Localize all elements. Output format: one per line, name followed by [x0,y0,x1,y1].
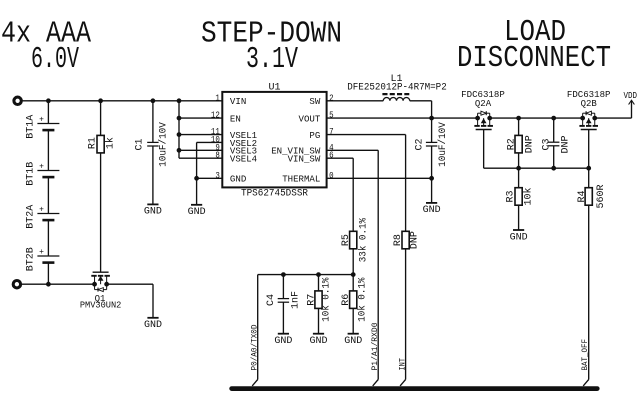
wire [47,177,49,214]
resistor R4 [585,188,592,206]
wire down P0/A0/TX0D [257,275,259,380]
svg-text:12: 12 [211,111,220,121]
junction VSEL2/GND [195,176,199,180]
wire R3 bottom [518,205,520,230]
svg-text:C1: C1 [135,138,146,150]
wire VSEL2 to GND [197,141,223,143]
svg-text:BT1A: BT1A [26,115,37,139]
ground (Q1 source) [147,317,158,319]
svg-text:+: + [39,116,44,125]
wire Q1 to GND [107,283,153,285]
svg-text:GND: GND [230,174,247,185]
junction Q2B gate/R4 [587,166,591,170]
resistor R2 [515,135,522,153]
wire PG down to R8 [405,135,407,232]
wire VOUT rail [327,117,478,119]
wire SW [327,100,384,102]
wire to ground [196,178,198,205]
wire to ground [431,178,433,203]
ground (R7) [313,333,324,335]
wire EN [179,117,222,119]
svg-text:C2: C2 [414,138,425,150]
ground (C2) [426,202,437,204]
op-amp U1 TPS62745DSSR box [222,92,326,187]
svg-text:10k 0.1%: 10k 0.1% [357,278,369,322]
wire R8 to bus [405,249,407,380]
wire VSEL1 [179,134,222,136]
wire C2 bottom [431,146,433,178]
svg-text:DNP: DNP [410,231,421,249]
wire [47,220,49,256]
svg-text:VDD: VDD [623,91,637,101]
VDD arrow [629,100,635,104]
svg-text:6: 6 [329,151,334,161]
bus entry BAT_OFF [583,380,589,386]
junction R2 top [517,116,521,120]
wire R5 to node [352,249,354,275]
svg-text:R1: R1 [87,137,98,149]
svg-text:GND: GND [309,336,327,347]
wire [47,130,49,171]
ground (C1) [147,203,158,205]
wire SW to C2 node [410,100,432,102]
svg-text:Q2A: Q2A [475,99,492,109]
svg-text:BT2A: BT2A [26,205,37,229]
junction VSEL3 [177,148,181,152]
wire R2 bottom stub [518,153,520,168]
transistor Q2A FDC6318P [474,111,493,129]
svg-text:DNP: DNP [560,135,571,153]
svg-text:10k 0.1%: 10k 0.1% [321,278,333,322]
svg-text:VSEL4: VSEL4 [230,154,257,165]
junction VOUT/C2 [430,116,434,120]
L1 shield dashes [382,93,409,95]
capacitor C3 [548,141,559,143]
wire C4 top [282,275,284,299]
wire down to ground [152,284,154,318]
svg-text:6.0V: 6.0V [31,42,79,77]
svg-text:C4: C4 [266,294,277,306]
terminal J2 (battery -) [13,281,20,288]
wire R1 to Q1 gate [100,153,102,272]
svg-text:DISCONNECT: DISCONNECT [457,41,611,76]
wire R4 top [588,168,590,188]
svg-text:R3: R3 [506,190,517,202]
bus entry P0/A0/TX0D [252,380,258,386]
transistor Q1 PMV30UN2 [91,272,110,291]
junction C2/THERMAL [430,176,434,180]
svg-text:GND: GND [144,207,162,218]
wire to VDD [595,117,632,119]
svg-text:THERMAL: THERMAL [282,174,320,185]
svg-text:1nF: 1nF [290,291,301,309]
svg-text:560R: 560R [596,184,607,208]
svg-text:TPS62745DSSR: TPS62745DSSR [241,189,308,200]
wire THERMAL [327,177,432,179]
wire EN_VIN_SW [327,149,379,151]
svg-text:10uF/10V: 10uF/10V [437,122,449,167]
wire C2 top [431,118,433,142]
svg-text:8: 8 [215,151,220,161]
battery BT2B [37,255,59,257]
svg-text:1k: 1k [105,137,117,149]
wire R3 top [518,168,520,188]
svg-text:+: + [39,248,44,257]
svg-text:Q2B: Q2B [581,99,598,109]
junction R2 bottom [517,166,521,170]
wire VDD switch rail [490,117,583,119]
junction C4 [282,273,286,277]
svg-text:0: 0 [329,171,334,181]
wire gate net [484,167,589,169]
capacitor C2 [426,141,437,143]
junction C3 bottom [552,166,556,170]
wire Q2B gate down [588,130,590,169]
battery stack wire [47,101,49,124]
ground (U1 pin 3) [191,204,202,206]
svg-text:EN: EN [230,114,241,125]
wire down to R5 [352,158,354,231]
svg-text:DNP: DNP [524,135,535,153]
junction top rail / C1 [151,99,155,103]
resistor R3 [515,188,522,206]
wire down P1/A1/RXD0 [377,150,379,379]
svg-text:PG: PG [309,130,320,141]
bus entry P1/A1/RXD0 [373,380,379,386]
wire GND pin 3 [197,177,223,179]
battery BT1B [37,170,59,172]
junction C3 top [552,116,556,120]
svg-text:1: 1 [215,93,220,103]
svg-text:P1/A1/RXD0: P1/A1/RXD0 [370,323,380,371]
svg-text:+: + [39,163,44,172]
svg-text:R2: R2 [506,138,517,150]
junction R7 [317,273,321,277]
junction R5/R6/wire [351,273,355,277]
wire C3 top stub [553,118,555,142]
inductor L1 [383,97,409,100]
junction battery bottom [47,282,51,286]
svg-text:VIN_SW: VIN_SW [288,154,321,165]
svg-text:GND: GND [423,205,441,216]
ground (R6) [348,333,359,335]
svg-text:R7: R7 [306,294,317,306]
wire VIN_SW [327,157,354,159]
resistor R7 [315,291,322,309]
capacitor C4 [278,298,289,300]
battery BT2A [37,213,59,215]
svg-text:C3: C3 [541,138,552,150]
svg-text:GND: GND [344,336,362,347]
svg-text:INT: INT [397,358,407,371]
junction top rail / EN rail [177,99,181,103]
resistor R5 [350,231,357,249]
wire Q2A gate down [483,130,485,169]
ground (C4) [278,333,289,335]
battery BT1A [37,123,59,125]
wire VSEL3 [179,149,222,151]
svg-text:R5: R5 [341,234,352,246]
wire [47,263,49,285]
svg-text:R6: R6 [341,294,352,306]
svg-text:PMV30UN2: PMV30UN2 [80,301,122,311]
GND bus bar [232,386,598,391]
svg-text:33k 0.1%: 33k 0.1% [358,218,370,262]
svg-text:7: 7 [329,127,334,137]
resistor R6 [350,291,357,309]
wire C4 bottom [282,302,284,334]
wire feedback node [258,274,354,276]
wire bottom rail [21,283,95,285]
resistor R1 [97,135,104,153]
bus entry INT [400,380,406,386]
svg-text:GND: GND [144,320,162,331]
svg-text:3: 3 [215,171,220,181]
ground (R3) [513,229,524,231]
wire R7 top [318,275,320,291]
svg-text:VOUT: VOUT [299,114,321,125]
wire R4 to bus [588,205,590,379]
wire VDD riser [631,101,633,118]
wire C1 top [152,101,154,143]
wire down to VOUT node [431,101,433,118]
junction VSEL1 [177,133,181,137]
svg-text:VIN: VIN [230,96,246,107]
svg-text:3.1V: 3.1V [246,42,298,77]
svg-text:GND: GND [274,336,292,347]
svg-text:10uF/10V: 10uF/10V [158,122,170,167]
svg-text:P0/A0/TX0D: P0/A0/TX0D [250,325,260,371]
svg-text:DFE252012P-4R7M=P2: DFE252012P-4R7M=P2 [347,82,447,93]
wire R7 bottom [318,308,320,333]
svg-text:R8: R8 [393,234,404,246]
svg-text:+: + [39,206,44,215]
terminal J1 (battery +) [14,97,21,104]
junction EN [177,116,181,120]
svg-text:R4: R4 [577,190,588,202]
wire EN rail [178,101,180,158]
svg-text:U1: U1 [268,82,280,93]
wire C3 bottom stub [553,146,555,168]
resistor R8 [402,231,409,249]
svg-text:5: 5 [329,111,334,121]
capacitor C1 [147,141,158,143]
wire R1 top [100,101,102,136]
wire C1 bottom [152,146,154,204]
wire PG [327,134,406,136]
wire R2 top stub [518,118,520,135]
junction top rail / R1 [99,99,103,103]
wire VIN net (top rail) [21,100,222,102]
junction top rail / battery [47,99,51,103]
wire R6 bottom [352,308,354,333]
svg-text:BAT_OFF: BAT_OFF [580,339,590,371]
wire R6 top [352,275,354,291]
svg-text:GND: GND [188,207,206,218]
svg-text:BT2B: BT2B [26,247,37,271]
svg-text:2: 2 [329,93,334,103]
svg-text:SW: SW [309,96,320,107]
wire VSEL4 [179,157,222,159]
transistor Q2B FDC6318P [579,111,598,129]
svg-text:GND: GND [510,232,528,243]
svg-text:BT1B: BT1B [26,162,37,186]
svg-text:10k: 10k [523,187,535,205]
